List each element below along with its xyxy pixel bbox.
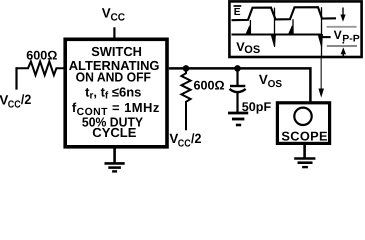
node VOS label: [259, 72, 282, 90]
junction node at R2: [183, 65, 190, 72]
svg-text:ON AND OFF: ON AND OFF: [76, 70, 151, 85]
svg-text:V: V: [259, 72, 268, 87]
wire VCC to switch box: [113, 27, 115, 39]
svg-text:P-P: P-P: [342, 33, 360, 44]
svg-text:CC: CC: [178, 139, 191, 150]
svg-text:E: E: [234, 7, 241, 18]
waveform E trace: [232, 7, 337, 20]
VPP label: [334, 28, 361, 45]
switch box text: [69, 44, 160, 140]
VPP lower level line: [327, 45, 357, 47]
ground under capacitor C1: [228, 113, 248, 125]
svg-text:CC: CC: [8, 100, 21, 111]
VPP top arrow: [340, 8, 345, 22]
VPP upper level line: [327, 26, 357, 28]
waveform inset box: [229, 1, 361, 57]
node VCC supply label: [102, 5, 126, 23]
scope U2 box: [277, 103, 329, 144]
waveform VOS label: [236, 40, 260, 56]
waveform VOS trace: [232, 33, 322, 35]
switch box U1: [65, 39, 167, 147]
wire to VCC/2 left: [15, 67, 17, 89]
pointer arrow from waveform inset to scope: [318, 58, 324, 98]
VPP bottom arrow: [341, 42, 346, 56]
svg-text:CC: CC: [111, 13, 126, 24]
scope CRT circle: [294, 108, 311, 125]
resistor R1 zigzag: [17, 62, 64, 76]
svg-text:CYCLE: CYCLE: [92, 125, 136, 140]
ground under switch box: [105, 147, 125, 172]
waveform VOS down spikes: [271, 35, 275, 47]
capacitor C1: [230, 68, 246, 112]
svg-text:OS: OS: [268, 79, 283, 90]
node VCC/2 left label: [0, 92, 31, 111]
node VCC/2 right label: [169, 131, 201, 150]
svg-text:SWITCH: SWITCH: [91, 44, 142, 59]
svg-text:/2: /2: [21, 92, 31, 107]
svg-text:600Ω: 600Ω: [194, 78, 225, 92]
ground under scope: [294, 145, 315, 168]
svg-text:/2: /2: [191, 131, 201, 146]
resistor R2 zigzag vertical: [181, 68, 190, 130]
waveform E label with overline: [234, 6, 242, 18]
waveform transition lines: [250, 7, 321, 57]
waveform VOS up spikes: [246, 26, 251, 35]
svg-text:V: V: [102, 5, 111, 20]
svg-text:OS: OS: [244, 44, 260, 56]
wire switch output to scope: [169, 68, 311, 102]
svg-text:V: V: [334, 28, 343, 42]
svg-text:SCOPE: SCOPE: [281, 129, 328, 144]
junction node at C1: [234, 65, 241, 72]
